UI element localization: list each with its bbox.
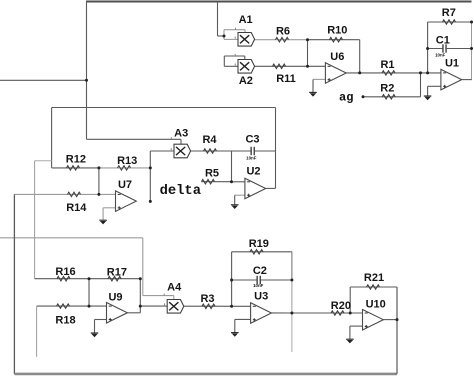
svg-text:R20: R20 xyxy=(331,300,351,312)
svg-text:U10: U10 xyxy=(366,298,386,310)
svg-text:R2: R2 xyxy=(380,83,394,95)
svg-text:R17: R17 xyxy=(107,266,127,278)
svg-text:ag: ag xyxy=(339,91,353,105)
svg-text:R19: R19 xyxy=(249,238,269,250)
svg-text:R6: R6 xyxy=(276,25,290,37)
svg-text:delta: delta xyxy=(160,183,201,199)
svg-text:U2: U2 xyxy=(246,166,260,178)
svg-text:R10: R10 xyxy=(327,25,347,37)
svg-text:U9: U9 xyxy=(108,292,122,304)
svg-text:R12: R12 xyxy=(66,153,86,165)
svg-text:C3: C3 xyxy=(245,134,259,146)
svg-text:A2: A2 xyxy=(239,75,253,87)
svg-text:R4: R4 xyxy=(202,134,217,146)
svg-text:C1: C1 xyxy=(436,35,450,47)
svg-text:R1: R1 xyxy=(380,59,394,71)
svg-text:A3: A3 xyxy=(174,128,188,140)
svg-text:U7: U7 xyxy=(118,179,132,191)
svg-text:R5: R5 xyxy=(205,167,219,179)
svg-text:10nF: 10nF xyxy=(435,52,446,57)
svg-text:U1: U1 xyxy=(445,58,459,70)
svg-text:A4: A4 xyxy=(167,282,182,294)
svg-text:R11: R11 xyxy=(276,73,296,85)
svg-text:R3: R3 xyxy=(200,293,214,305)
svg-text:10nF: 10nF xyxy=(253,283,264,288)
svg-text:R14: R14 xyxy=(66,202,87,214)
svg-text:R21: R21 xyxy=(364,272,384,284)
svg-text:R18: R18 xyxy=(55,314,75,326)
svg-text:R13: R13 xyxy=(117,155,137,167)
svg-text:A1: A1 xyxy=(239,14,253,26)
svg-text:R16: R16 xyxy=(55,266,75,278)
svg-text:10nF: 10nF xyxy=(246,156,257,161)
svg-text:U6: U6 xyxy=(330,51,344,63)
svg-text:R7: R7 xyxy=(442,7,456,19)
svg-text:C2: C2 xyxy=(253,265,267,277)
svg-text:U3: U3 xyxy=(254,291,268,303)
